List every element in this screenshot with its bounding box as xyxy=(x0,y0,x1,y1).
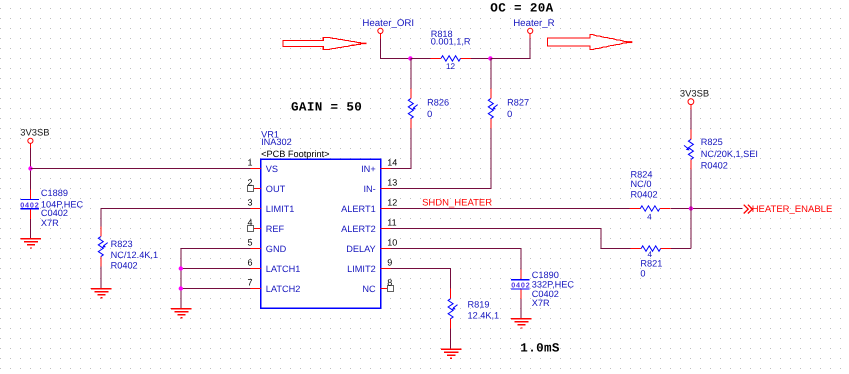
svg-text:3: 3 xyxy=(247,197,252,207)
svg-text:0: 0 xyxy=(640,268,645,278)
svg-text:C1889: C1889 xyxy=(41,188,68,198)
svg-text:12.4K,1: 12.4K,1 xyxy=(468,310,500,320)
svg-text:R819: R819 xyxy=(468,300,490,310)
svg-text:C1890: C1890 xyxy=(532,270,559,280)
svg-text:HEATER_ENABLE: HEATER_ENABLE xyxy=(752,204,833,215)
svg-text:5: 5 xyxy=(247,237,252,247)
svg-text:R825: R825 xyxy=(701,137,723,147)
svg-text:ALERT2: ALERT2 xyxy=(341,224,376,234)
svg-text:4: 4 xyxy=(647,212,652,221)
svg-text:INA302: INA302 xyxy=(261,137,292,147)
svg-text:0.001,1,R: 0.001,1,R xyxy=(431,37,471,47)
svg-text:R826: R826 xyxy=(427,97,449,107)
svg-text:Heater_ORI: Heater_ORI xyxy=(362,18,414,29)
svg-text:8: 8 xyxy=(387,277,392,287)
svg-text:X7R: X7R xyxy=(532,298,550,308)
svg-text:R827: R827 xyxy=(507,97,529,107)
svg-text:R0402: R0402 xyxy=(111,261,138,271)
svg-text:1: 1 xyxy=(247,157,252,167)
svg-text:C0402: C0402 xyxy=(41,208,68,218)
svg-text:ALERT1: ALERT1 xyxy=(341,204,376,214)
svg-text:NC/20K,1,SEI: NC/20K,1,SEI xyxy=(701,149,758,159)
svg-text:3V3SB: 3V3SB xyxy=(680,88,709,99)
svg-text:REF: REF xyxy=(266,224,285,234)
svg-text:NC: NC xyxy=(362,284,376,294)
svg-text:3V3SB: 3V3SB xyxy=(20,127,49,138)
svg-text:12: 12 xyxy=(446,62,456,71)
svg-text:0: 0 xyxy=(427,109,432,119)
svg-text:11: 11 xyxy=(387,217,396,227)
svg-text:OUT: OUT xyxy=(266,184,286,194)
svg-text:0402: 0402 xyxy=(511,280,530,289)
svg-text:R823: R823 xyxy=(111,239,133,249)
svg-text:10: 10 xyxy=(387,237,397,247)
svg-text:LATCH1: LATCH1 xyxy=(266,264,301,274)
svg-text:X7R: X7R xyxy=(41,218,59,228)
svg-text:NC/12.4K,1: NC/12.4K,1 xyxy=(111,250,159,260)
svg-text:IN+: IN+ xyxy=(361,164,376,174)
svg-text:SHDN_HEATER: SHDN_HEATER xyxy=(422,198,492,209)
svg-text:6: 6 xyxy=(247,257,252,267)
svg-text:R0402: R0402 xyxy=(631,189,658,199)
svg-text:LATCH2: LATCH2 xyxy=(266,284,301,294)
svg-text:OC = 20A: OC = 20A xyxy=(490,1,553,15)
svg-text:Heater_R: Heater_R xyxy=(513,18,554,29)
svg-text:R824: R824 xyxy=(631,169,653,179)
svg-text:14: 14 xyxy=(387,157,397,167)
svg-text:0: 0 xyxy=(507,109,512,119)
svg-text:2: 2 xyxy=(247,177,252,187)
svg-text:VS: VS xyxy=(266,164,278,174)
svg-text:<PCB Footprint>: <PCB Footprint> xyxy=(261,149,329,159)
svg-text:12: 12 xyxy=(387,197,397,207)
svg-text:NC/0: NC/0 xyxy=(631,179,652,189)
svg-text:7: 7 xyxy=(247,277,252,287)
svg-text:R821: R821 xyxy=(640,258,662,268)
svg-text:LIMIT1: LIMIT1 xyxy=(266,204,295,214)
svg-text:4: 4 xyxy=(247,217,252,227)
svg-text:R0402: R0402 xyxy=(701,161,728,171)
svg-text:LIMIT2: LIMIT2 xyxy=(347,264,376,274)
svg-text:1.0mS: 1.0mS xyxy=(520,341,560,355)
svg-text:DELAY: DELAY xyxy=(346,244,375,254)
svg-text:IN-: IN- xyxy=(363,184,375,194)
svg-text:GND: GND xyxy=(266,244,287,254)
svg-text:GAIN = 50: GAIN = 50 xyxy=(291,101,362,115)
svg-text:9: 9 xyxy=(387,257,392,267)
svg-text:13: 13 xyxy=(387,177,397,187)
svg-text:0402: 0402 xyxy=(20,200,39,209)
